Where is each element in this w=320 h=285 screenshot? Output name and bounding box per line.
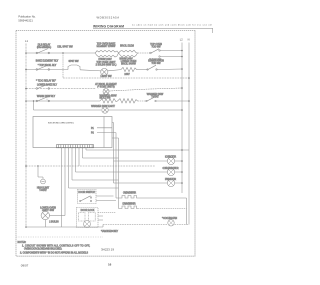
wire row4 mid xyxy=(138,100,147,102)
wire row1 mid xyxy=(138,52,151,54)
wire row2 out2 xyxy=(157,68,183,71)
lamp L2 xyxy=(103,89,109,95)
wire vent corner down xyxy=(186,198,188,225)
svg-text:TOP OVEN BAKE: TOP OVEN BAKE xyxy=(97,42,116,45)
wire circle1 row xyxy=(114,160,183,162)
svg-text:* COOLING FAN: * COOLING FAN xyxy=(162,217,177,220)
svg-text:NOTES:: NOTES: xyxy=(18,242,27,244)
motor M5 cooling fan xyxy=(168,220,174,226)
svg-text:WARMER 450W: WARMER 450W xyxy=(99,95,117,98)
svg-text:LIGHT SW: LIGHT SW xyxy=(100,76,112,78)
svg-text:BAKE ELEMENT RLY: BAKE ELEMENT RLY xyxy=(36,60,59,63)
wire mid row y158 xyxy=(83,157,119,159)
right switch r2 xyxy=(148,65,156,69)
svg-text:WARMER DRW LIGHT: WARMER DRW LIGHT xyxy=(91,105,115,108)
svg-text:OVEN DOOR CLOSED AND UNLOCKED.: OVEN DOOR CLOSED AND UNLOCKED. xyxy=(24,248,62,251)
switch TOD xyxy=(151,49,159,53)
wire row2 mid2 xyxy=(137,69,149,71)
lock terminal A xyxy=(79,213,86,222)
wire row3 out xyxy=(109,88,182,91)
wire row3 xyxy=(26,88,96,90)
svg-text:2. COMPONENTS WITH * IN DO NOT: 2. COMPONENTS WITH * IN DO NOT APPEAR IN… xyxy=(20,251,88,254)
bottom wire joint xyxy=(102,225,104,228)
resistor warmer element 2 xyxy=(118,99,138,103)
svg-text:* "EOC RELAY BD": * "EOC RELAY BD" xyxy=(36,79,56,82)
relay K1 contact xyxy=(38,49,49,53)
svg-text:2 BULBS (40W EA.): 2 BULBS (40W EA.) xyxy=(96,63,117,66)
thermal high limit xyxy=(41,179,46,184)
high limit drop wire xyxy=(38,166,43,179)
wire row1 out lower xyxy=(160,56,182,58)
harness wire v1 xyxy=(61,148,63,228)
svg-text:L1: L1 xyxy=(25,39,28,43)
svg-text:DRW VENT HTR: DRW VENT HTR xyxy=(123,204,136,206)
svg-text:Publication No.: Publication No. xyxy=(18,14,36,18)
door switch box xyxy=(78,190,97,204)
resistor lower broil element xyxy=(121,67,137,71)
harness wire v3 xyxy=(68,148,70,189)
svg-text:OVEN VENT HTR: OVEN VENT HTR xyxy=(123,192,136,194)
junction row1-L2 xyxy=(181,50,183,52)
lamp L3 xyxy=(102,107,108,113)
EOC inner compartment xyxy=(103,117,105,148)
svg-text:5995441521: 5995441521 xyxy=(18,18,33,22)
resistor broil element pair xyxy=(119,50,138,53)
lamp L4 oven light xyxy=(41,211,49,219)
right switch r4 xyxy=(147,97,155,101)
svg-text:2 BULBS: 2 BULBS xyxy=(49,221,59,223)
svg-text:TOD SW: TOD SW xyxy=(151,63,161,65)
svg-text:BROIL ELEM: BROIL ELEM xyxy=(120,45,134,47)
wire row1 xyxy=(26,52,95,54)
contact bump door switch xyxy=(68,65,101,71)
wire heater2 out xyxy=(138,208,187,210)
wire row1-row2b drop xyxy=(62,53,64,78)
wire row4 out xyxy=(156,100,189,102)
lamp L1 top oven xyxy=(101,68,108,75)
svg-text:DOOR LOCK: DOOR LOCK xyxy=(81,210,95,212)
wire row5 xyxy=(34,109,102,111)
svg-text:WDB30S2A5A: WDB30S2A5A xyxy=(97,15,120,19)
harness wire v5 xyxy=(75,148,77,173)
harness wire v6 xyxy=(78,148,80,167)
motor M3 xyxy=(167,179,174,186)
svg-text:* JA MODELS ONLY: * JA MODELS ONLY xyxy=(101,230,118,233)
svg-text:WARM DRW RLY: WARM DRW RLY xyxy=(37,95,56,98)
svg-text:3H223 19: 3H223 19 xyxy=(101,248,114,252)
lamp L4 drop xyxy=(44,220,46,227)
svg-text:SPST SW: SPST SW xyxy=(69,61,80,63)
wire row1 out upper xyxy=(160,50,182,52)
harness wire v2 xyxy=(64,148,66,216)
wire row2 xyxy=(26,69,68,71)
svg-text:TOD SW: TOD SW xyxy=(151,46,161,48)
EOC connector strip xyxy=(57,145,94,148)
harness wire v8 xyxy=(85,148,87,151)
resistor warmer element xyxy=(100,99,118,103)
svg-text:T-STAT: T-STAT xyxy=(39,189,47,192)
diagram border frame xyxy=(16,30,195,256)
junction row1-L1 xyxy=(25,52,27,54)
wire row5 out xyxy=(108,109,182,111)
harness wire v4 xyxy=(71,148,73,181)
L1 rail xyxy=(25,44,27,228)
svg-text:no ades un mod sw asm and conn: no ades un mod sw asm and conn block asm… xyxy=(132,25,213,27)
door lock box xyxy=(77,208,99,228)
door lock wires out xyxy=(98,212,116,214)
element vent heater 2 xyxy=(119,206,138,209)
svg-text:LOWER BAKE RLY: LOWER BAKE RLY xyxy=(37,84,58,87)
wire long row y166 xyxy=(26,165,155,167)
wire mid row y180 xyxy=(72,179,119,181)
svg-text:ELECTRONIC OVEN CONTROL: ELECTRONIC OVEN CONTROL xyxy=(48,122,75,124)
bottom wire left xyxy=(26,226,103,228)
harness wire vB2 xyxy=(115,133,117,198)
wire mid row y188 xyxy=(69,187,119,189)
bottom wire dashed to fan xyxy=(103,224,189,226)
motor M1 xyxy=(167,157,174,164)
N rail xyxy=(188,43,190,225)
svg-text:DBL SPST SW: DBL SPST SW xyxy=(57,47,73,49)
svg-text:1. CIRCUIT SHOWN WITH ALL CONT: 1. CIRCUIT SHOWN WITH ALL CONTROLS OFF T… xyxy=(22,244,90,247)
svg-text:DOOR SWITCH: DOOR SWITCH xyxy=(78,192,95,194)
wire vent out xyxy=(138,197,187,199)
svg-text:ELEMENT 2750W: ELEMENT 2750W xyxy=(97,46,117,48)
svg-text:N: N xyxy=(188,38,190,42)
wire row4 xyxy=(26,100,100,102)
svg-text:09/07: 09/07 xyxy=(21,264,29,268)
svg-text:2750W 240V: 2750W 240V xyxy=(98,59,112,61)
lock terminal B xyxy=(89,213,96,222)
motor M2 xyxy=(167,168,174,175)
EOC box xyxy=(33,117,112,148)
svg-text:(DE-ENERG.): (DE-ENERG.) xyxy=(37,47,52,49)
wire circle2 row xyxy=(76,171,183,173)
svg-text:DLB RELAY: DLB RELAY xyxy=(38,44,51,47)
svg-text:16: 16 xyxy=(108,262,112,266)
harness wire vB3 xyxy=(118,138,120,209)
wire row2 out xyxy=(108,70,121,71)
harness wire vB1 xyxy=(113,123,115,184)
wire mid row y150 xyxy=(86,149,189,151)
switch row3 xyxy=(38,84,49,88)
svg-text:240V: 240V xyxy=(124,74,130,76)
row5 left hook xyxy=(33,101,35,110)
svg-text:BROIL 3400W: BROIL 3400W xyxy=(121,64,137,66)
L2 rail xyxy=(181,43,183,194)
resistor bake element pair xyxy=(95,50,119,53)
header rule hook xyxy=(212,28,214,33)
harness wire v7 xyxy=(82,148,84,159)
lamp L4 wire xyxy=(50,215,66,217)
P2 stub wire xyxy=(97,133,119,138)
P1 stub wire xyxy=(97,123,114,128)
switch row2 xyxy=(38,65,49,69)
door lock stub pins xyxy=(98,216,103,220)
switch row4 xyxy=(38,97,49,101)
wire circle3 row xyxy=(114,182,183,184)
door switch wires out xyxy=(96,196,116,201)
motor M4 door lock xyxy=(84,221,91,228)
svg-text:WIRING DIAGRAM: WIRING DIAGRAM xyxy=(93,24,124,28)
wire row2b to N xyxy=(63,77,189,79)
element vent heater xyxy=(116,196,138,199)
header rule line xyxy=(93,27,213,29)
door switch contact xyxy=(81,196,91,201)
faint divider above notes xyxy=(16,236,103,238)
